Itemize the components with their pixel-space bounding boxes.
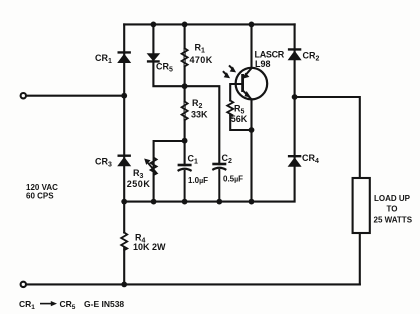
capacitor C1: [178, 165, 192, 202]
svg-text:L98: L98: [255, 59, 271, 69]
svg-text:0.5µF: 0.5µF: [223, 174, 243, 183]
svg-text:C1: C1: [188, 153, 199, 165]
svg-text:R2: R2: [192, 98, 203, 110]
junction dot R5 cathode: [249, 127, 255, 133]
svg-text:CR1: CR1: [19, 299, 35, 311]
svg-text:G-E IN538: G-E IN538: [84, 299, 124, 309]
transistor Q1 arrow anode-into-base: [243, 73, 250, 79]
light arrow upper: [229, 65, 236, 72]
resistor R5: [227, 101, 233, 116]
wire gate to R5 and R5 bottom link: [230, 84, 251, 130]
resistor R1: [182, 48, 188, 66]
svg-text:25 WATTS: 25 WATTS: [374, 215, 413, 224]
svg-text:CR4: CR4: [302, 153, 319, 165]
svg-text:R1: R1: [195, 43, 206, 55]
wire load bottom: [359, 233, 361, 284]
svg-text:CR2: CR2: [303, 50, 320, 62]
junction dot rail R3: [151, 199, 157, 205]
junction dot R2 R3 C1: [182, 138, 188, 144]
transistor Q1 arrow emitter: [245, 91, 251, 97]
svg-text:CR5: CR5: [60, 299, 76, 311]
terminal input top: [21, 93, 26, 98]
capacitor C2: [212, 164, 226, 202]
diode CR5: [147, 53, 161, 62]
light arrow lower: [223, 71, 230, 78]
svg-text:CR1: CR1: [95, 53, 112, 65]
junction dot top rail CR5: [151, 22, 157, 28]
svg-text:1.0µF: 1.0µF: [188, 176, 208, 185]
resistor R2: [182, 102, 188, 121]
junction dot rail cathode: [249, 199, 255, 205]
wire LASCR cathode: [250, 100, 252, 202]
junction dot CR2 load: [292, 94, 298, 100]
svg-text:60 CPS: 60 CPS: [26, 192, 54, 201]
junction dot top rail R1: [182, 22, 188, 28]
svg-text:250K: 250K: [127, 179, 151, 189]
svg-text:CR3: CR3: [95, 156, 112, 168]
wire CR2 load link: [295, 97, 360, 178]
wire R3 top link (R3 branch to R2/C1 junction): [154, 141, 185, 203]
diode CR3: [117, 155, 131, 167]
junction dot CR5 rail R1: [182, 83, 188, 89]
svg-text:TO: TO: [387, 204, 398, 213]
junction dot rail C1: [182, 199, 188, 205]
svg-text:56K: 56K: [231, 114, 248, 124]
junction dot bottom rail R4: [121, 282, 127, 288]
diode CR4: [288, 155, 302, 167]
svg-text:CR5: CR5: [156, 62, 173, 74]
wire top rail: [124, 23, 294, 25]
svg-text:10K 2W: 10K 2W: [133, 242, 166, 252]
caption CR1 to CR5 G-E IN538: [19, 299, 124, 311]
resistor R4: [121, 233, 127, 251]
wire R1-R2-C1 vertical branch: [184, 24, 186, 165]
wire bottom rail: [26, 283, 360, 285]
junction dot input CR1 branch: [121, 93, 127, 99]
junction dot top rail LASCR anode: [249, 22, 255, 28]
diode CR1: [117, 51, 131, 63]
potentiometer R3: [144, 158, 157, 176]
wire CR1-CR3-R4 vertical branch: [123, 24, 125, 284]
svg-text:33K: 33K: [191, 109, 208, 119]
wire LASCR anode: [250, 24, 252, 67]
junction dot rail CR3: [121, 199, 127, 205]
op-amp U1 LASCR L98 body: [236, 68, 268, 100]
wire CR5 branch (top rail down, then right to C2 branch): [153, 24, 219, 164]
junction dot rail C2: [216, 199, 222, 205]
terminal input bottom: [21, 282, 26, 287]
wire bottom inner rail: [124, 24, 294, 201]
svg-text:470K: 470K: [190, 55, 213, 65]
load resistor box: [353, 178, 370, 233]
wire input (left terminal to CR1 branch): [26, 95, 124, 97]
diode CR2: [288, 48, 302, 60]
svg-text:LOAD UP: LOAD UP: [374, 194, 411, 203]
